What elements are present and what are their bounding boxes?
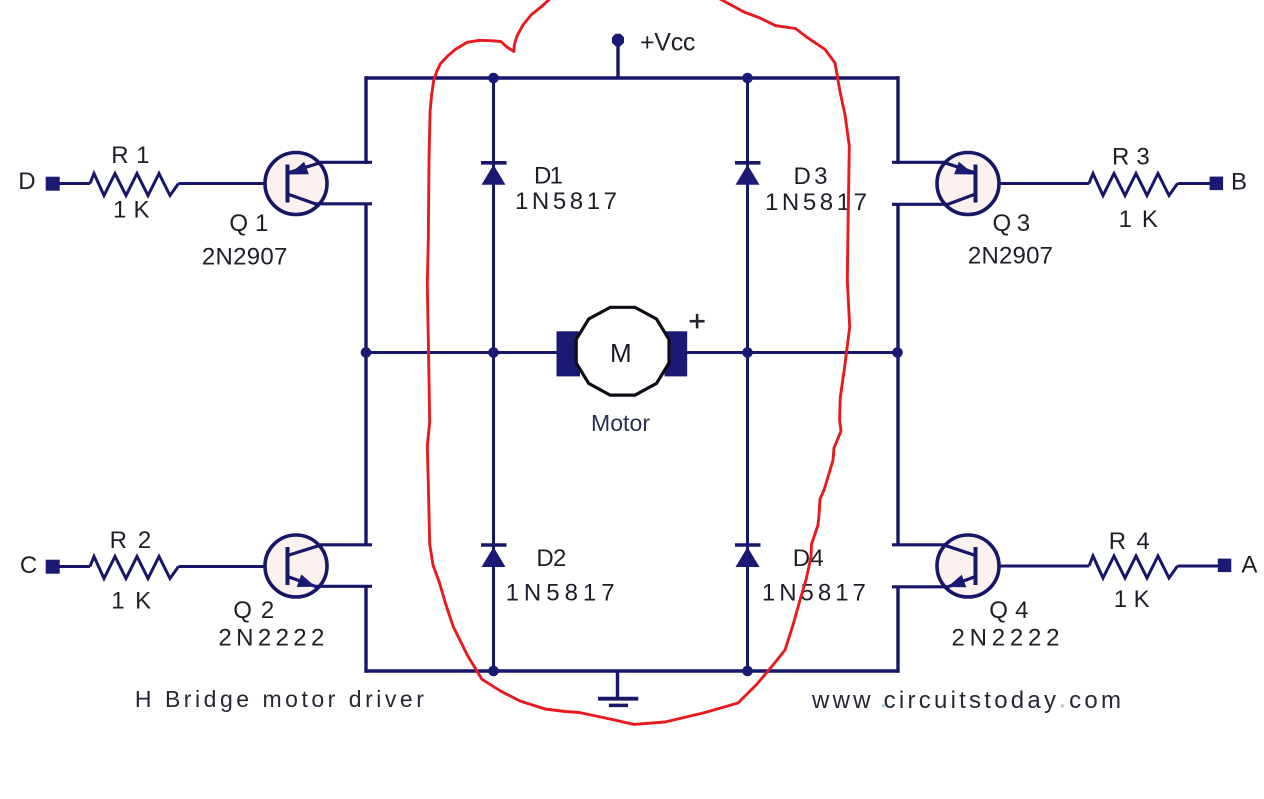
svg-text:Q3: Q3 [993,210,1031,237]
transistor Q4 [892,535,999,597]
wire D to R1 [59,182,90,185]
diode D2 [481,545,507,567]
svg-text:Q1: Q1 [229,210,268,237]
junction bottom D4 [742,666,753,677]
wire D1 column [492,78,495,353]
junction top-left (D1/Vcc rail) [488,73,499,84]
svg-text:R4: R4 [1109,528,1150,555]
svg-text:R2: R2 [110,527,152,554]
svg-text:C: C [20,552,37,579]
svg-text:H Bridge motor driver: H Bridge motor driver [135,686,424,712]
wire right rail lower segment [896,586,899,672]
motor left brush [557,331,581,376]
svg-text:Q2: Q2 [233,597,274,624]
wire Q4 base to R4 [976,565,1089,568]
wire R3 to terminal B [1178,182,1211,185]
transistor Q3 [892,153,999,215]
junction middle rail left [361,347,372,358]
resistor R4 [1089,556,1178,578]
wire top rail [365,76,900,79]
wire D3 column [746,78,749,353]
svg-text:R1: R1 [111,142,149,169]
junction middle rail D3/D4 [742,347,753,358]
wire D4 column [746,353,749,672]
wire left rail middle segment [364,205,367,545]
diode D1 [481,163,507,185]
wire +Vcc stem [616,43,619,79]
svg-text:D2: D2 [536,545,566,572]
transistor Q1 [265,153,372,215]
svg-text:2N2907: 2N2907 [968,243,1053,270]
motor M1 body [576,307,669,395]
terminal B pad [1210,177,1224,191]
junction middle rail right [892,347,903,358]
terminal D pad [46,177,60,191]
svg-text:+Vcc: +Vcc [640,29,695,57]
wire left rail lower segment [364,586,367,672]
wire bottom rail [365,669,900,672]
svg-text:1K: 1K [1114,586,1150,613]
junction bottom D2 [488,666,499,677]
wire middle rail right of motor [687,351,899,354]
+Vcc terminal dot [612,34,624,46]
resistor R3 [1089,174,1178,196]
wire left rail upper segment [364,76,367,164]
svg-text:1N5817: 1N5817 [762,580,866,607]
wire R1 to Q1 base [179,182,289,185]
resistor R2 [90,557,179,579]
wire ground stem [616,671,619,697]
motor right brush [665,331,688,376]
terminal A pad [1218,559,1232,573]
svg-text:2N2907: 2N2907 [202,244,287,271]
resistor R1 [90,174,179,196]
svg-text:D: D [18,168,35,195]
wire right rail middle segment [896,205,899,545]
wire R2 to Q2 base [179,565,289,568]
svg-text:A: A [1241,552,1257,579]
diode D3 [735,163,761,185]
wire D2 column [492,353,495,672]
junction top-right (D3/Vcc rail) [742,73,753,84]
wire C to R2 [59,565,90,568]
wire Q3 base to R3 [976,182,1089,185]
svg-text:1N5817: 1N5817 [765,189,867,216]
faint dot 2 in web address [1061,704,1064,707]
ground symbol [598,699,638,706]
wire middle rail left of motor [366,351,558,354]
svg-text:Q4: Q4 [989,597,1028,624]
wire right rail upper segment [896,76,899,164]
svg-text:2N2222: 2N2222 [218,625,324,652]
faint dot 1 in web address [882,704,885,707]
svg-text:1K: 1K [113,197,150,224]
diode D4 [735,545,761,567]
wire R4 to terminal A [1178,565,1219,568]
red annotation loop [427,0,849,724]
svg-text:1N5817: 1N5817 [515,188,617,215]
svg-text:1K: 1K [111,588,151,615]
svg-text:Motor: Motor [591,410,650,436]
svg-text:1N5817: 1N5817 [506,580,615,607]
svg-text:2N2222: 2N2222 [952,625,1060,652]
svg-text:R3: R3 [1112,144,1150,171]
svg-text:www circuitstoday com: www circuitstoday com [811,687,1121,714]
motor plus polarity mark [690,314,705,329]
svg-text:B: B [1231,169,1247,196]
svg-text:D1: D1 [534,163,563,190]
terminal C pad [46,560,60,574]
svg-text:1K: 1K [1119,206,1158,233]
junction middle rail D1/D2 [488,347,499,358]
transistor Q2 [265,535,372,597]
svg-text:D3: D3 [794,163,828,190]
svg-text:M: M [610,338,632,368]
